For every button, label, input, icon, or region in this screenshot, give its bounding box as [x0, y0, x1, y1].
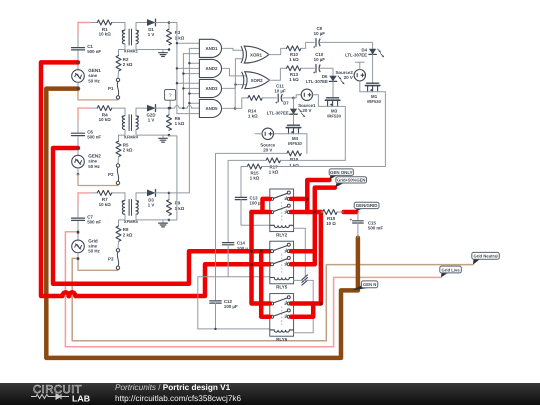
- resistor R5: [116, 141, 121, 157]
- wire AND5 in1: [189, 102, 199, 104]
- node red GEN2: [77, 147, 80, 150]
- wire M3 drain to R17 row: [338, 106, 346, 160]
- wire M4 drain to R19: [299, 134, 307, 154]
- capacitor C6: [72, 132, 85, 134]
- svg-text:http://circuitlab.com/cfs358cw: http://circuitlab.com/cfs358cwcj7k6: [115, 394, 241, 403]
- node red GEN1: [77, 61, 80, 64]
- wire RLY5 coil row left: [198, 277, 270, 329]
- wire AND3 to XOR1: [223, 59, 242, 89]
- wire Source1 to M3: [313, 95, 328, 107]
- resistor R6: [167, 115, 172, 131]
- wire R14 to C11: [262, 97, 276, 99]
- ground GEN1 section: [162, 50, 164, 53]
- ground Grid section: [162, 220, 164, 223]
- wire red RLY6 sw2 contact: [291, 304, 313, 317]
- chassis ground: [304, 272, 306, 277]
- wire AND5 in3: [177, 113, 200, 115]
- wire R5 to switch: [117, 157, 120, 164]
- wire secondary top XFMR1: [135, 23, 137, 31]
- wire red RLY6 sw2 common: [261, 251, 270, 317]
- wire AND2 in3: [183, 73, 199, 75]
- wire red rail C: [291, 212, 321, 304]
- wire primary bottom XFMR5: [119, 214, 126, 226]
- resistor R17: [266, 158, 280, 163]
- wire AND3 to XOR2: [235, 84, 245, 86]
- switch P2: [116, 164, 119, 167]
- wire red RLY2 sw2 common: [252, 210, 270, 215]
- node D3 cathode: [168, 192, 171, 195]
- capacitor C11: [277, 94, 279, 102]
- wire D4 to M1: [372, 55, 374, 84]
- wire secondary top XFMR5: [135, 193, 137, 201]
- capacitor C7: [72, 217, 85, 219]
- wire brown neutral: [46, 89, 358, 358]
- node bottom GEN1: [77, 87, 80, 90]
- wire top row GEN1: [90, 22, 97, 24]
- wire C6 to red node: [77, 137, 79, 149]
- footer bar: [0, 383, 540, 405]
- capacitor C8: [315, 39, 317, 47]
- wire XOR1 out: [269, 48, 286, 54]
- resistor R13: [287, 66, 301, 71]
- node R3 bottom: [168, 48, 171, 51]
- generator GEN2: [72, 155, 85, 168]
- junction red grid50: [313, 211, 316, 214]
- wire Source minus stub: [255, 133, 262, 135]
- wire R17 row: [228, 160, 266, 241]
- AND gate AND1: [199, 39, 221, 57]
- wire signal2 row to AND5: [169, 107, 175, 109]
- wire primary bottom XFMR4: [119, 130, 126, 142]
- wire red RLY2 sw2 contact: [291, 210, 321, 215]
- wire R8 to switch: [117, 242, 120, 249]
- resistor R3: [167, 29, 172, 45]
- wire AND2 to XOR2: [223, 68, 246, 76]
- XOR gate XOR1: [244, 46, 269, 63]
- wire D6 to M3: [332, 82, 334, 98]
- wire C8 to D4: [320, 42, 372, 48]
- transformer XFMR4: [122, 116, 125, 130]
- wire pink stub Grid: [78, 192, 90, 194]
- wire C15 bottom: [357, 223, 359, 238]
- wire red node to GEN2: [77, 148, 79, 155]
- wire AND1 to XOR1: [223, 48, 242, 50]
- resistor R8: [116, 226, 121, 242]
- wire bottom tan Grid: [78, 259, 118, 270]
- wire AND3 in2: [183, 87, 199, 89]
- wire D3 to R9: [156, 192, 170, 194]
- wire hop red over pink: [62, 292, 68, 296]
- wire AND3 in3: [189, 93, 199, 95]
- wire Source2 to M1: [359, 81, 361, 92]
- wire pink grid-live: [65, 232, 441, 347]
- junction red railC: [319, 302, 322, 305]
- resistor R2: [116, 56, 121, 72]
- AND gate AND5: [199, 99, 221, 117]
- wire AND1 in2: [189, 47, 199, 49]
- ground GEN2 section: [162, 135, 164, 138]
- capacitor C14: [222, 242, 233, 244]
- junction red riser: [306, 197, 309, 200]
- wire XOR2 out: [269, 68, 287, 80]
- node bottom GEN2: [77, 173, 80, 176]
- wire C10 to D6: [320, 68, 333, 75]
- wire signal2 rail: [182, 54, 184, 109]
- wire top row GEN2: [90, 107, 97, 109]
- source Source1: [301, 89, 312, 100]
- wire hop sig2 over rail3: [187, 106, 191, 109]
- wire red GEN ONLY riser: [307, 180, 329, 212]
- wire M1 right to R15 row: [378, 92, 386, 166]
- wire signal3 rail: [169, 48, 189, 193]
- node G2D cathode: [168, 107, 171, 110]
- diode D1: [147, 19, 156, 26]
- wire C13 to RLY2 coil: [241, 200, 270, 226]
- wire AND1 in1: [177, 42, 200, 44]
- flag Grid Live: [441, 270, 448, 278]
- wire RLY6 coil right: [294, 280, 314, 332]
- wire C15 top: [357, 212, 359, 220]
- wire bottom tan GEN1: [78, 89, 118, 100]
- capacitor C1: [72, 47, 85, 49]
- source Source: [262, 128, 273, 139]
- wire Source2 top stub: [359, 62, 361, 69]
- wire tan grid-neutral: [72, 258, 473, 340]
- LED D7: [290, 109, 297, 115]
- capacitor C12: [210, 300, 221, 302]
- generator Grid: [72, 240, 85, 253]
- source Source2: [354, 70, 365, 81]
- flag Grid+50%GEN: [335, 180, 344, 188]
- wire AND3 in1: [177, 82, 200, 84]
- resistor R7: [97, 190, 111, 195]
- wire R18 left: [321, 211, 323, 213]
- node dots on feeders: [77, 61, 80, 64]
- wire signal1 rail: [169, 23, 177, 114]
- capacitor C10: [315, 65, 317, 73]
- node R6 bottom: [168, 134, 171, 137]
- resistor R10: [287, 46, 301, 51]
- wire C7 to red node: [77, 221, 79, 233]
- wire C14 to RLY5 coil: [228, 245, 270, 277]
- node red Grid: [77, 232, 80, 235]
- transformer XFMR1: [122, 30, 125, 44]
- resistor R15: [247, 164, 261, 169]
- wire RLY5 coil right: [294, 279, 306, 281]
- wire AND2 in1: [189, 62, 199, 64]
- AND gate AND2: [199, 59, 221, 77]
- wire R10 to C8: [301, 42, 314, 48]
- svg-text:Portricunits / Portric design: Portricunits / Portric design V1: [115, 383, 231, 392]
- wire secondary bottom XFMR4: [136, 130, 169, 136]
- wire secondary bottom XFMR5: [136, 214, 169, 220]
- CircuitLab logo: [33, 384, 90, 403]
- wire red GEN2 feeder: [53, 148, 270, 284]
- wire D1 to R3: [156, 22, 170, 24]
- XOR gate XOR2: [245, 72, 270, 89]
- LED D6: [329, 76, 336, 82]
- relay RLY2: [270, 189, 294, 232]
- wire hop red over tan: [69, 292, 75, 296]
- resistor R14: [248, 95, 262, 100]
- wire red RLY2 sw1 contact: [291, 197, 307, 202]
- wire R19 row left: [216, 153, 287, 299]
- capacitor C13: [235, 196, 246, 198]
- wire GEN2 to bottom node: [77, 168, 79, 174]
- wire red GEN1 feeder: [41, 62, 78, 296]
- wire red Grid50 riser: [315, 188, 335, 252]
- diode G2D: [147, 105, 156, 112]
- resistor R4: [97, 106, 111, 111]
- relay RLY5: [270, 241, 294, 284]
- resistor R9: [167, 200, 172, 216]
- wire pink stub GEN2: [78, 107, 90, 109]
- diode D3: [147, 190, 156, 197]
- wire GEN1 to bottom node: [77, 82, 79, 88]
- switch P1: [116, 78, 119, 81]
- wire AND1 in3: [183, 53, 199, 55]
- wire primary bottom XFMR1: [119, 44, 126, 56]
- wire red main vertical: [252, 212, 270, 304]
- wire C1 to red node: [77, 51, 79, 63]
- wire bottom tan GEN2: [78, 174, 118, 185]
- relay RLY6: [270, 294, 294, 337]
- wire C12 to RLY6 coil row: [215, 303, 217, 329]
- wire top row Grid: [90, 192, 97, 194]
- wire secondary top XFMR4: [135, 108, 137, 116]
- wire secondary bottom XFMR1: [136, 44, 169, 50]
- wire red node to Grid: [77, 233, 79, 240]
- wire AND5 out: [223, 107, 236, 109]
- transistor M4: [288, 124, 300, 126]
- wire R15 row: [241, 167, 247, 198]
- switch P3: [116, 249, 119, 252]
- AND gate AND3: [199, 79, 221, 97]
- resistor R19: [287, 151, 301, 156]
- flag GEN ONLY: [329, 172, 337, 179]
- wire C11 to D7 node: [283, 97, 294, 99]
- wire sec2 return rail: [169, 136, 177, 220]
- logo squiggle: [31, 394, 69, 399]
- wire R2 to switch: [117, 71, 120, 78]
- wire D7 to M4: [293, 114, 295, 125]
- wire RLY2 coil right to gnd: [294, 228, 306, 271]
- resistor R1: [97, 20, 111, 25]
- node D1 cathode: [168, 21, 171, 24]
- wire red node to GEN1: [77, 62, 79, 69]
- wire G2D to R6: [156, 107, 170, 109]
- junction red sw2: [250, 250, 253, 253]
- wire node to Source1: [294, 95, 302, 98]
- wire red GEN/GRID: [344, 210, 357, 215]
- svg-text:LAB: LAB: [72, 393, 90, 403]
- transformer XFMR5: [122, 201, 125, 215]
- node bottom Grid: [77, 258, 80, 261]
- generator GEN1: [72, 70, 85, 83]
- wire hop sig2 over rail1: [175, 106, 179, 109]
- transistor M1: [367, 82, 379, 84]
- LED D4: [369, 49, 376, 55]
- capacitor C15: [353, 220, 364, 222]
- probe box stem: [169, 101, 171, 109]
- junction red rly5 row: [260, 250, 263, 253]
- wire AND2 in2: [177, 67, 200, 69]
- node R9 bottom: [168, 219, 171, 222]
- flag GEN/GRID: [356, 205, 362, 211]
- transistor M3: [327, 97, 339, 99]
- wire red RLY2 sw1 common: [263, 199, 270, 212]
- probe box: [165, 90, 176, 101]
- flag GEN N: [352, 284, 369, 290]
- flag Grid Neutral: [473, 256, 480, 265]
- resistor R18: [323, 210, 337, 215]
- wire pink stub GEN1: [78, 22, 90, 24]
- wire M4 source to Source: [274, 133, 289, 135]
- wire R13 to C10: [301, 67, 314, 69]
- wire red RLY5 contacts: [291, 249, 315, 254]
- wire Grid to bottom node: [77, 253, 79, 259]
